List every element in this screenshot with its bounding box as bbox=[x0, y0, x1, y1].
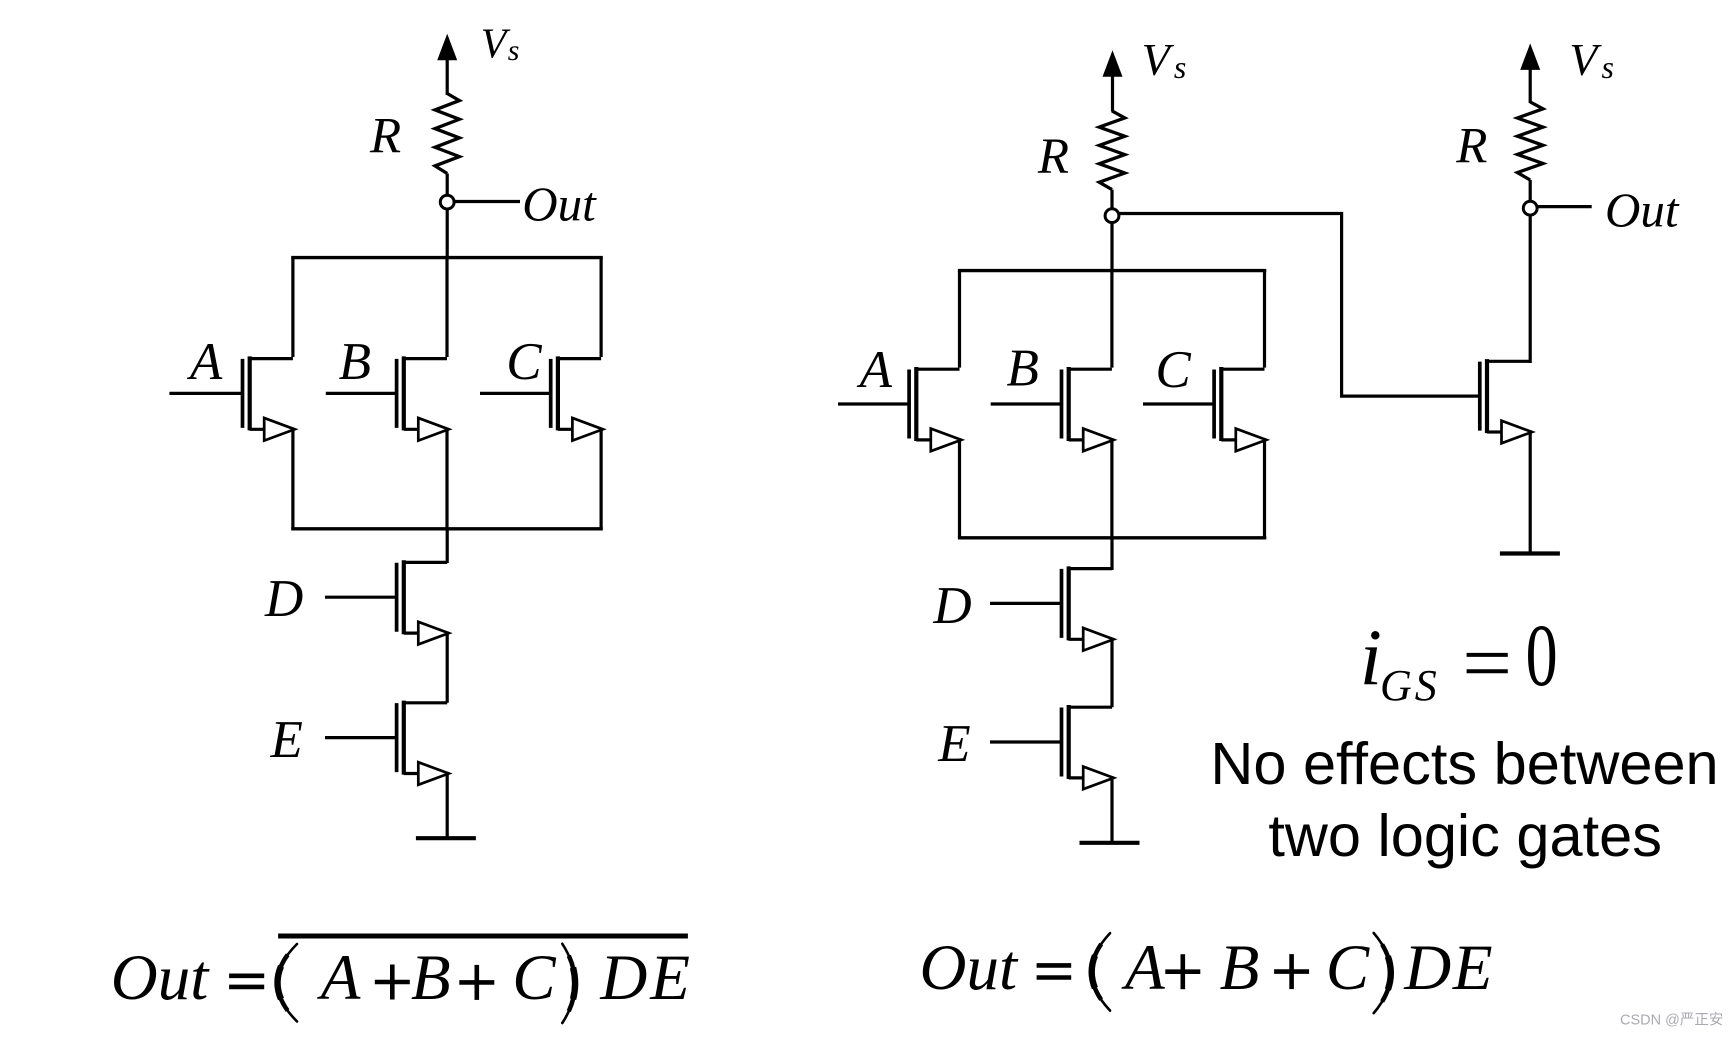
svg-text:E: E bbox=[270, 711, 303, 769]
wire Out stub (stage 2) bbox=[1537, 205, 1592, 208]
svg-text:A: A bbox=[317, 942, 361, 1014]
wire bottom rail (left) bbox=[291, 527, 603, 530]
svg-text:D: D bbox=[1403, 932, 1451, 1004]
ground (right circuit) bbox=[1080, 841, 1140, 845]
formula Out = not((A+B+C)DE) (left) bbox=[111, 936, 690, 1023]
resistor R (left) bbox=[435, 94, 459, 174]
wire node to top rail (left) bbox=[446, 206, 449, 259]
text: No effects between two logic gates bbox=[1210, 730, 1718, 869]
power Vs supply (left circuit) bbox=[437, 34, 457, 95]
svg-text:i: i bbox=[1360, 614, 1382, 702]
ground (stage 2) bbox=[1500, 551, 1560, 555]
svg-text:No effects between: No effects between bbox=[1210, 730, 1718, 797]
svg-text:C: C bbox=[1326, 932, 1370, 1004]
wire node2 down to transistor drain bbox=[1529, 212, 1532, 363]
wire stage1 out to stage2 gate (horiz, vert, horiz) bbox=[1119, 214, 1473, 397]
svg-text:s: s bbox=[1174, 49, 1186, 85]
formula Out = (A+B+C)DE (right) bbox=[920, 932, 1493, 1013]
svg-text:R: R bbox=[1037, 129, 1069, 185]
svg-text:CSDN @严正安: CSDN @严正安 bbox=[1620, 1012, 1723, 1029]
transistor B (right) bbox=[991, 271, 1114, 538]
power Vs supply (right circuit) bbox=[1103, 50, 1123, 111]
svg-text:Out: Out bbox=[920, 932, 1019, 1004]
svg-text:Out: Out bbox=[1605, 183, 1680, 238]
svg-text:A: A bbox=[1121, 932, 1165, 1004]
svg-text:V: V bbox=[481, 22, 511, 68]
formula iGS = 0 bbox=[1360, 607, 1558, 710]
svg-text:s: s bbox=[508, 34, 520, 67]
node out stage 1 bbox=[1105, 209, 1119, 223]
svg-text:B: B bbox=[411, 942, 451, 1014]
wire top rail (left) bbox=[291, 256, 603, 259]
svg-text:E: E bbox=[1452, 932, 1493, 1004]
svg-text:E: E bbox=[649, 942, 690, 1014]
svg-text:C: C bbox=[512, 942, 556, 1014]
svg-text:two logic gates: two logic gates bbox=[1268, 802, 1662, 869]
svg-text:A: A bbox=[857, 341, 893, 399]
svg-text:R: R bbox=[1455, 119, 1487, 175]
svg-text:D: D bbox=[599, 942, 647, 1014]
resistor R (right stage 1) bbox=[1099, 111, 1125, 190]
svg-text:C: C bbox=[1155, 341, 1191, 399]
wire node1 to top rail bbox=[1110, 220, 1113, 272]
resistor R (stage 2) bbox=[1517, 102, 1543, 180]
svg-text:s: s bbox=[1602, 49, 1614, 85]
svg-text:R: R bbox=[369, 109, 401, 165]
svg-text:0: 0 bbox=[1526, 607, 1558, 705]
transistor C (right) bbox=[1143, 271, 1266, 538]
transistor C (left) bbox=[480, 258, 603, 529]
wire rail to D drain (left) bbox=[446, 529, 449, 563]
transistor D (left) bbox=[325, 560, 449, 703]
svg-text:C: C bbox=[506, 333, 542, 391]
svg-text:B: B bbox=[1220, 932, 1260, 1004]
svg-text:V: V bbox=[1142, 34, 1175, 85]
transistor E (left) bbox=[325, 701, 449, 839]
transistor A (right) bbox=[838, 271, 961, 538]
transistor E (right) bbox=[990, 705, 1114, 843]
node Out (stage 2) bbox=[1523, 201, 1537, 215]
svg-text:V: V bbox=[1569, 34, 1602, 85]
wire rail to D drain (right) bbox=[1110, 538, 1113, 570]
transistor output stage bbox=[1473, 359, 1532, 553]
svg-text:GS: GS bbox=[1380, 661, 1440, 710]
svg-text:Out: Out bbox=[111, 942, 210, 1014]
ground (left circuit) bbox=[416, 836, 476, 840]
transistor A (left) bbox=[169, 258, 294, 529]
svg-text:D: D bbox=[932, 577, 971, 635]
svg-text:B: B bbox=[339, 333, 371, 391]
svg-text:B: B bbox=[1007, 340, 1039, 398]
power Vs supply (stage 2) bbox=[1520, 43, 1540, 103]
svg-text:E: E bbox=[937, 715, 970, 773]
svg-text:Out: Out bbox=[522, 176, 597, 231]
wire Out stub (left) bbox=[454, 200, 520, 203]
svg-text:D: D bbox=[264, 570, 303, 628]
transistor B (left) bbox=[326, 258, 449, 529]
wire top rail (right) bbox=[958, 269, 1266, 272]
transistor D (right) bbox=[990, 566, 1114, 707]
wire bottom rail (right) bbox=[958, 536, 1266, 539]
node Out (left) bbox=[440, 195, 454, 209]
svg-text:A: A bbox=[187, 333, 223, 391]
